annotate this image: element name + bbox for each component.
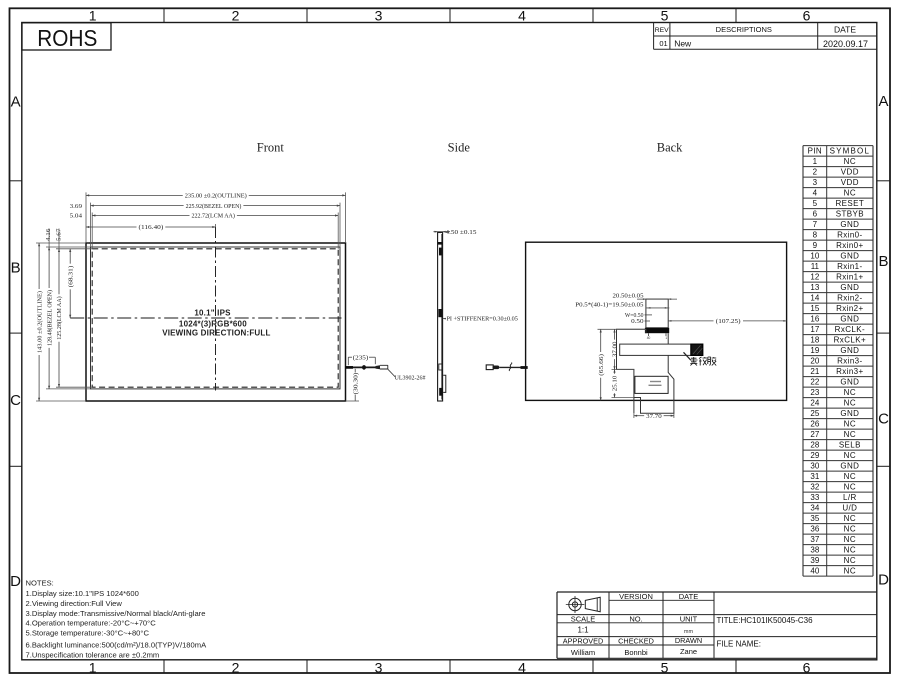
svg-text:NC: NC [844, 525, 856, 534]
svg-text:1: 1 [813, 157, 818, 166]
svg-text:2: 2 [232, 659, 240, 675]
svg-text:(107.25): (107.25) [716, 318, 741, 325]
zone tick bottom [163, 660, 165, 673]
svg-text:NC: NC [844, 420, 856, 429]
svg-text:SCALE: SCALE [571, 614, 596, 623]
svg-text:REV: REV [655, 27, 669, 34]
svg-text:7.Unspecification tolerance ar: 7.Unspecification tolerance are ±0.2mm [26, 651, 160, 660]
front dim (235) wire [348, 356, 352, 358]
label tiny text lines [650, 381, 661, 382]
svg-text:4: 4 [518, 7, 526, 23]
svg-text:4.50 ±0.15: 4.50 ±0.15 [446, 229, 478, 236]
svg-text:DATE: DATE [679, 592, 698, 601]
svg-text:31: 31 [810, 472, 819, 481]
svg-text:6: 6 [803, 7, 811, 23]
side tape block 2 [439, 248, 442, 256]
svg-text:30: 30 [810, 462, 819, 471]
pin 1 tick [665, 333, 667, 336]
back dim (65.66) [598, 328, 646, 330]
svg-text:235.00 ±0.2(OUTLINE): 235.00 ±0.2(OUTLINE) [185, 193, 247, 200]
back dim 37.00 [612, 368, 634, 370]
zone tick top [163, 8, 165, 22]
side-to-back wire plug shell [486, 365, 493, 370]
svg-text:NC: NC [844, 535, 856, 544]
svg-text:1: 1 [89, 659, 97, 675]
svg-text:4: 4 [813, 189, 818, 198]
zone tick top [449, 8, 451, 22]
FPC connector black bar [645, 328, 669, 333]
svg-text:3: 3 [813, 178, 818, 187]
zone tick bottom [306, 660, 308, 673]
svg-text:6.Backlight luminance:500(cd/m: 6.Backlight luminance:500(cd/m²)/18.0(TY… [26, 640, 208, 649]
svg-text:NC: NC [844, 451, 856, 460]
svg-text:(30.30): (30.30) [352, 373, 359, 395]
front bezel-open rect [91, 247, 341, 389]
svg-text:Rxin0+: Rxin0+ [836, 241, 864, 250]
svg-text:3: 3 [375, 659, 383, 675]
side FPC fold bracket [443, 375, 446, 392]
svg-text:1: 1 [89, 7, 97, 23]
svg-text:SYMBOL: SYMBOL [830, 147, 871, 156]
ROHS box [22, 23, 111, 50]
svg-text:NC: NC [844, 388, 856, 397]
front dim 125.28 AA [58, 249, 60, 294]
front view output wire thick root [346, 366, 354, 369]
svg-text:(235): (235) [353, 354, 369, 361]
front dim 116.40 center [86, 226, 137, 228]
front dim (30.30) [354, 369, 356, 373]
svg-text:Side: Side [448, 141, 471, 155]
svg-text:PI +STIFFENER=0.30±0.05: PI +STIFFENER=0.30±0.05 [447, 316, 519, 323]
svg-text:GND: GND [840, 378, 859, 387]
back dim 25.10 [614, 369, 616, 373]
svg-text:10.1" IPS: 10.1" IPS [194, 308, 231, 317]
title block [557, 591, 877, 593]
back dim 0.50 [645, 320, 651, 322]
svg-text:NC: NC [844, 472, 856, 481]
svg-text:GND: GND [840, 346, 859, 355]
svg-text:14: 14 [810, 294, 819, 303]
svg-text:RxCLK-: RxCLK- [835, 325, 865, 334]
back dim 37.00 [614, 329, 616, 339]
side PI+stiffener leader [443, 318, 446, 320]
svg-text:27: 27 [810, 430, 819, 439]
svg-text:Rxin3-: Rxin3- [837, 357, 863, 366]
svg-text:GND: GND [840, 462, 859, 471]
svg-text:4.16: 4.16 [45, 228, 52, 241]
svg-text:35: 35 [810, 514, 819, 523]
svg-text:01: 01 [659, 39, 667, 48]
svg-text:GND: GND [840, 409, 859, 418]
leader to tape label [684, 352, 691, 360]
tape label CJK text 美纹胶 [690, 357, 716, 366]
zone tick bottom [449, 660, 451, 673]
side panel thick right edge [441, 234, 443, 400]
svg-text:NC: NC [844, 567, 856, 576]
svg-text:22: 22 [810, 378, 819, 387]
back dim 25.10 [612, 397, 634, 399]
svg-text:1: 1 [665, 336, 667, 340]
side dim 4.50 [434, 231, 451, 233]
svg-text:4.Operation temperature:-20°C~: 4.Operation temperature:-20°C~+70°C [26, 619, 157, 628]
front LCM AA dashed rect [92, 249, 338, 387]
svg-text:STBYB: STBYB [836, 210, 864, 219]
zone tick left [10, 180, 22, 182]
zone tick top [592, 8, 594, 22]
svg-text:32: 32 [810, 483, 819, 492]
svg-text:37.70: 37.70 [646, 413, 662, 420]
svg-text:2020.09.17: 2020.09.17 [823, 39, 868, 49]
ext line 4.16 [48, 229, 50, 248]
svg-text:PIN: PIN [808, 147, 823, 156]
zone tick top [735, 8, 737, 22]
FPC connector box [646, 299, 668, 328]
FPC tab left edge below [633, 398, 635, 414]
front dim 225.92 bezel [91, 205, 184, 207]
svg-text:SELB: SELB [839, 441, 861, 450]
svg-text:8: 8 [813, 231, 818, 240]
svg-text:UL3902-26#: UL3902-26# [395, 374, 427, 381]
svg-text:NC: NC [844, 546, 856, 555]
svg-text:2: 2 [813, 168, 818, 177]
front dim 143.00 outline [38, 243, 40, 289]
svg-text:B: B [11, 259, 21, 276]
third-angle projection symbol [569, 598, 581, 610]
svg-text:GND: GND [840, 315, 859, 324]
wire entry block at back view [521, 366, 528, 369]
svg-text:33: 33 [810, 493, 819, 502]
svg-text:APPROVED: APPROVED [563, 636, 604, 645]
svg-text:17: 17 [810, 325, 819, 334]
svg-text:39: 39 [810, 556, 819, 565]
pin 40 tick [648, 333, 650, 336]
back dim (107.25) [668, 320, 713, 322]
zone tick bottom [592, 660, 594, 673]
front dim 68.31 [69, 249, 71, 264]
svg-text:Bonnbi: Bonnbi [624, 648, 648, 657]
svg-text:26: 26 [810, 420, 819, 429]
svg-text:11: 11 [811, 262, 820, 271]
svg-text:TITLE:HC101IK50045-C36: TITLE:HC101IK50045-C36 [717, 616, 814, 625]
svg-text:37: 37 [810, 535, 819, 544]
svg-text:Rxin2+: Rxin2+ [836, 304, 864, 313]
front dim 128.48 bezel [48, 247, 50, 288]
svg-text:GND: GND [840, 283, 859, 292]
svg-text:(116.40): (116.40) [139, 224, 164, 231]
offset dim arrowhead at corner [86, 242, 89, 244]
svg-text:Rxin1-: Rxin1- [837, 262, 863, 271]
svg-text:15: 15 [810, 304, 819, 313]
svg-text:37.00: 37.00 [612, 341, 619, 357]
back dim W=0.50 [645, 314, 653, 316]
side small open block [439, 364, 442, 370]
zone tick right [877, 332, 890, 334]
svg-text:C: C [878, 411, 889, 428]
back dim 65.66 [600, 329, 602, 352]
svg-text:VDD: VDD [841, 178, 859, 187]
svg-text:128.48(BEZEL OPEN): 128.48(BEZEL OPEN) [46, 290, 53, 346]
zone tick left [10, 332, 22, 334]
svg-text:VIEWING DIRECTION:FULL: VIEWING DIRECTION:FULL [162, 329, 270, 338]
svg-text:CHECKED: CHECKED [618, 636, 654, 645]
svg-text:Zane: Zane [680, 647, 697, 656]
svg-text:DRAWN: DRAWN [675, 636, 702, 645]
svg-text:NC: NC [844, 514, 856, 523]
svg-text:18: 18 [810, 336, 819, 345]
svg-text:6: 6 [813, 210, 818, 219]
back dim 37.70 [633, 413, 635, 418]
svg-text:D: D [10, 573, 21, 590]
front dim 222.72 AA [92, 215, 189, 217]
svg-text:125.28(LCM AA): 125.28(LCM AA) [56, 296, 63, 339]
svg-text:24: 24 [810, 399, 819, 408]
back dim 19.50 pins [646, 307, 669, 309]
zone tick bottom [735, 660, 737, 673]
back dim 37.70 [634, 415, 644, 417]
svg-text:NO.: NO. [629, 614, 642, 623]
svg-text:UNIT: UNIT [680, 614, 698, 623]
svg-text:10: 10 [810, 252, 819, 261]
svg-text:RxCLK+: RxCLK+ [834, 336, 866, 345]
zone tick right [877, 180, 890, 182]
svg-text:3.Display mode:Transmissive/No: 3.Display mode:Transmissive/Normal black… [26, 609, 206, 618]
svg-text:A: A [11, 93, 21, 110]
svg-text:NC: NC [844, 399, 856, 408]
svg-text:NOTES:: NOTES: [26, 579, 54, 588]
svg-text:25: 25 [810, 409, 819, 418]
svg-text:U/D: U/D [842, 504, 857, 513]
front horizontal centerline [70, 317, 341, 319]
svg-text:36: 36 [810, 525, 819, 534]
svg-text:C: C [10, 392, 21, 409]
svg-text:2: 2 [232, 7, 240, 23]
svg-text:40: 40 [810, 567, 819, 576]
side stiffener block [438, 309, 442, 317]
svg-text:225.92(BEZEL OPEN): 225.92(BEZEL OPEN) [186, 203, 242, 210]
svg-text:DATE: DATE [834, 25, 856, 35]
front top dim extension lines [85, 192, 87, 243]
svg-text:3: 3 [375, 7, 383, 23]
svg-text:Rxin2-: Rxin2- [837, 294, 863, 303]
svg-text:DESCRIPTIONS: DESCRIPTIONS [716, 25, 772, 34]
svg-text:NC: NC [844, 556, 856, 565]
svg-text:RESET: RESET [836, 199, 865, 208]
svg-text:13: 13 [810, 283, 819, 292]
svg-text:GND: GND [840, 220, 859, 229]
svg-text:Rxin0-: Rxin0- [837, 231, 863, 240]
svg-text:23: 23 [810, 388, 819, 397]
svg-text:28: 28 [810, 441, 819, 450]
svg-text:NC: NC [844, 483, 856, 492]
back dim 20.50 [637, 298, 677, 300]
wire connector plug [376, 365, 381, 369]
svg-text:38: 38 [810, 546, 819, 555]
svg-text:7: 7 [813, 220, 818, 229]
side view panel outline [438, 233, 443, 402]
wire break mark [509, 363, 512, 372]
front outline rect 235x143 [86, 243, 346, 401]
svg-text:ROHS: ROHS [37, 25, 97, 51]
svg-text:5.04: 5.04 [70, 213, 83, 220]
svg-text:20: 20 [810, 357, 819, 366]
side tape block 1 [438, 242, 443, 245]
svg-text:1024*(3)RGB*600: 1024*(3)RGB*600 [179, 320, 247, 329]
svg-text:21: 21 [810, 367, 819, 376]
svg-text:3.69: 3.69 [70, 203, 83, 210]
side black block bottom [439, 388, 442, 396]
leader to UL3902-26# [388, 369, 396, 377]
svg-text:D: D [878, 572, 889, 589]
svg-text:FILE NAME:: FILE NAME: [717, 640, 761, 649]
svg-text:34: 34 [810, 504, 819, 513]
svg-text:25.10: 25.10 [612, 375, 619, 391]
back view outline rect [526, 242, 787, 400]
front vertical centerline [215, 227, 217, 391]
svg-text:29: 29 [810, 451, 819, 460]
svg-text:William: William [571, 648, 595, 657]
svg-text:5: 5 [661, 659, 669, 675]
svg-text:P0.5*(40-1)=19.50±0.05: P0.5*(40-1)=19.50±0.05 [575, 302, 644, 309]
svg-text:2.Viewing direction:Full View: 2.Viewing direction:Full View [26, 599, 123, 608]
svg-text:Rxin1+: Rxin1+ [836, 273, 864, 282]
front view output wire [353, 366, 376, 368]
svg-text:0.50: 0.50 [631, 318, 644, 325]
svg-text:New: New [674, 39, 692, 49]
svg-text:4: 4 [518, 659, 526, 675]
svg-text:NC: NC [844, 430, 856, 439]
side-to-back wire plug tip [493, 366, 500, 370]
svg-text:(68.31): (68.31) [67, 266, 74, 288]
svg-text:VDD: VDD [841, 168, 859, 177]
svg-text:mm: mm [684, 629, 694, 635]
svg-text:5.Storage temperature:-30°C~+8: 5.Storage temperature:-30°C~+80°C [26, 629, 150, 638]
ext line 5.67 [58, 229, 60, 249]
svg-text:(65.66): (65.66) [598, 354, 605, 376]
FPC label box [635, 376, 668, 393]
svg-text:20.50±0.05: 20.50±0.05 [613, 292, 645, 299]
zone tick right [877, 465, 890, 467]
svg-text:5: 5 [661, 7, 669, 23]
svg-text:Rxin3+: Rxin3+ [836, 367, 864, 376]
svg-text:GND: GND [840, 252, 859, 261]
tape strip rect [620, 344, 691, 355]
svg-text:A: A [878, 93, 888, 110]
hatched adhesive square [691, 344, 703, 355]
zone tick left [10, 465, 22, 467]
svg-text:9: 9 [813, 241, 818, 250]
front left dim extension lines [36, 242, 86, 244]
svg-text:5: 5 [813, 199, 818, 208]
svg-text:NC: NC [844, 189, 856, 198]
svg-text:1:1: 1:1 [577, 626, 589, 635]
front dim 235.00 outline [86, 194, 183, 196]
svg-text:1.Display size:10.1"IPS 1024*6: 1.Display size:10.1"IPS 1024*600 [26, 589, 139, 598]
svg-text:6: 6 [803, 659, 811, 675]
svg-text:B: B [878, 253, 888, 270]
svg-text:19: 19 [810, 346, 819, 355]
svg-text:NC: NC [844, 157, 856, 166]
svg-text:Front: Front [257, 141, 285, 155]
svg-text:222.72(LCM AA): 222.72(LCM AA) [192, 213, 235, 220]
FPC body outline [617, 329, 674, 413]
svg-text:VERSION: VERSION [619, 592, 653, 601]
svg-text:40: 40 [647, 336, 651, 340]
svg-text:143.00 ±0.2(OUTLINE): 143.00 ±0.2(OUTLINE) [36, 291, 43, 353]
zone tick top [306, 8, 308, 22]
svg-text:Back: Back [657, 141, 683, 155]
svg-text:L/R: L/R [843, 493, 857, 502]
revision table [653, 23, 655, 50]
svg-text:12: 12 [810, 273, 819, 282]
pin table [803, 145, 873, 147]
svg-text:16: 16 [810, 315, 819, 324]
